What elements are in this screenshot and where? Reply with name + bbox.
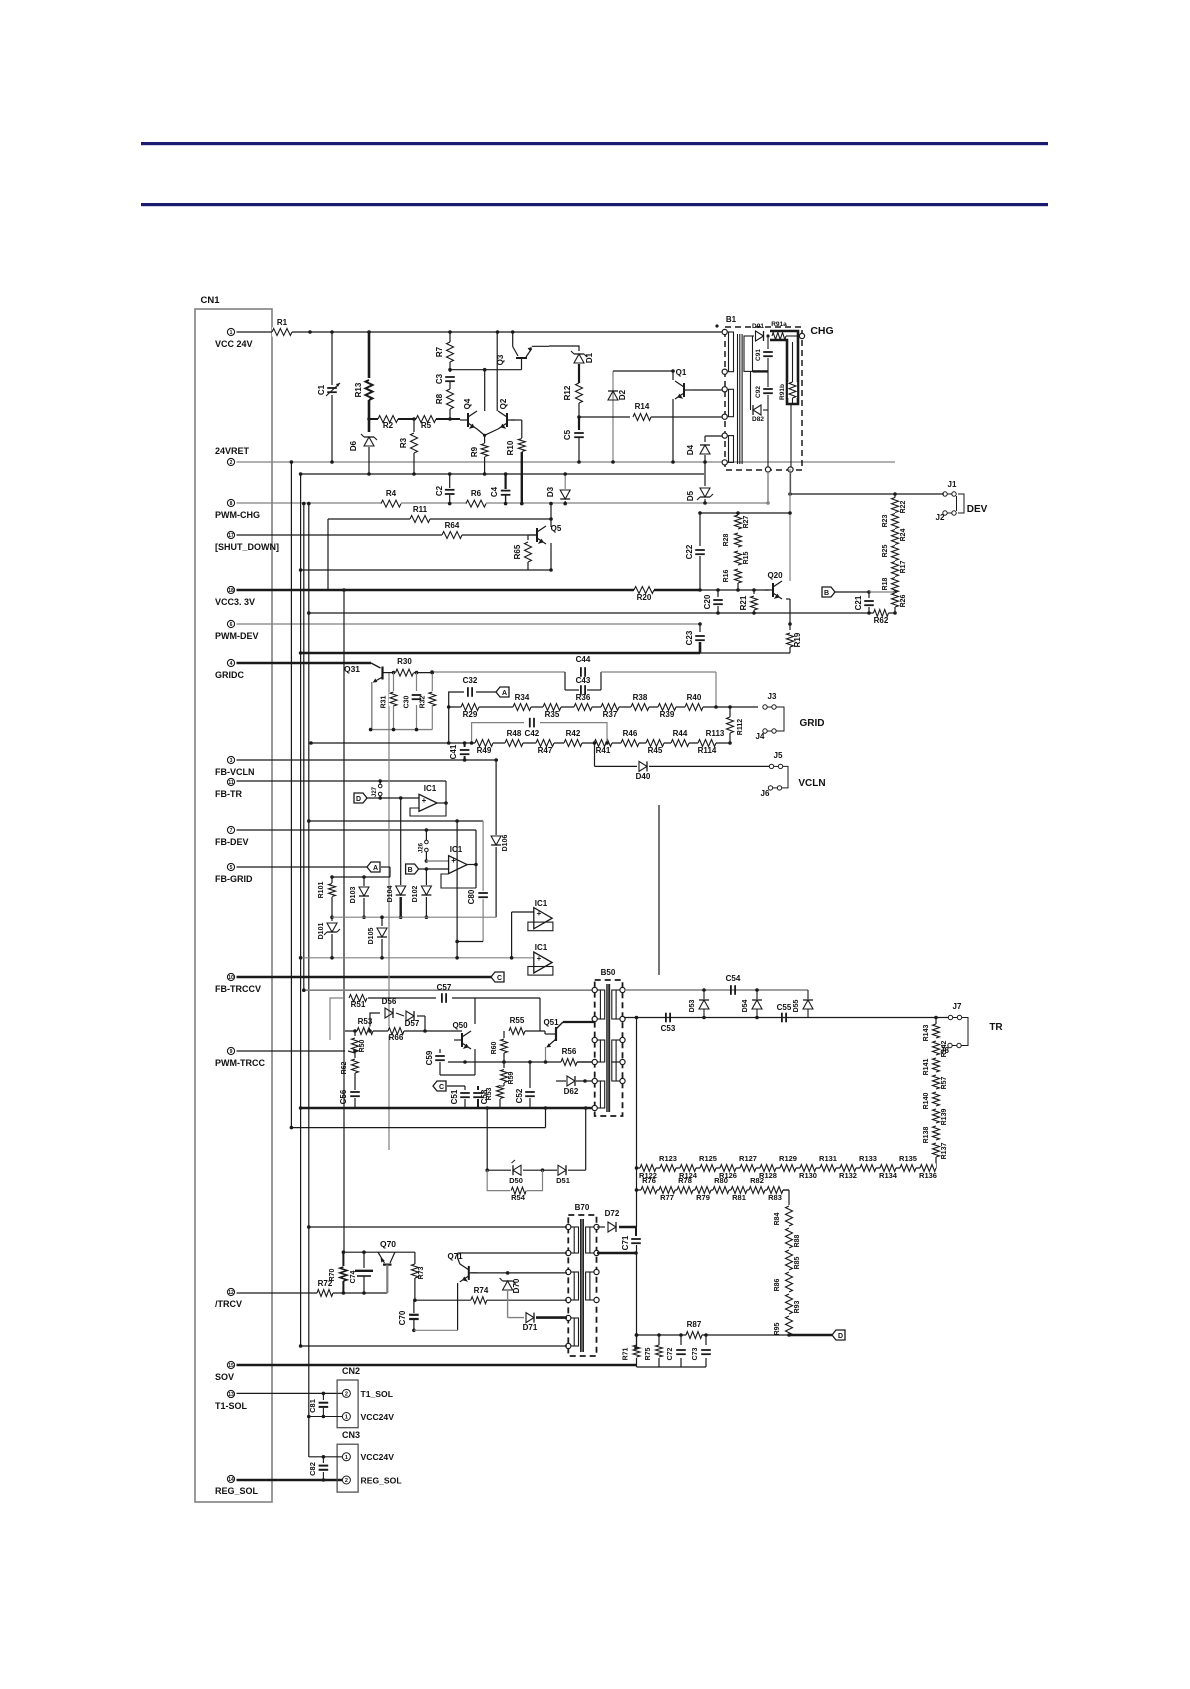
svg-text:D51: D51 xyxy=(556,1176,570,1185)
svg-text:R82: R82 xyxy=(750,1176,764,1185)
svg-text:R75: R75 xyxy=(645,1347,652,1360)
svg-text:Q5: Q5 xyxy=(551,524,562,533)
svg-text:R32: R32 xyxy=(419,695,426,708)
svg-text:D50: D50 xyxy=(509,1176,523,1185)
svg-text:R93: R93 xyxy=(794,1300,801,1313)
svg-text:Q1: Q1 xyxy=(676,368,687,377)
svg-text:R60: R60 xyxy=(491,1041,498,1054)
svg-text:DEV: DEV xyxy=(967,504,988,515)
svg-text:R1: R1 xyxy=(277,318,288,327)
svg-text:R59: R59 xyxy=(508,1071,515,1084)
svg-text:C59: C59 xyxy=(425,1050,434,1065)
svg-text:C92: C92 xyxy=(755,386,762,398)
svg-text:R131: R131 xyxy=(819,1154,837,1163)
svg-text:IC1: IC1 xyxy=(535,943,548,952)
svg-text:R16: R16 xyxy=(723,569,730,582)
svg-text:C42: C42 xyxy=(525,729,540,738)
svg-text:14: 14 xyxy=(228,1477,234,1483)
svg-text:R56: R56 xyxy=(562,1047,577,1056)
svg-text:R133: R133 xyxy=(859,1154,877,1163)
svg-text:J7: J7 xyxy=(953,1002,962,1011)
svg-text:R26: R26 xyxy=(900,594,907,607)
svg-text:D70: D70 xyxy=(512,1278,521,1293)
svg-text:+: + xyxy=(451,856,456,865)
svg-text:R38: R38 xyxy=(633,693,648,702)
svg-text:FB-GRID: FB-GRID xyxy=(215,874,253,884)
svg-text:D5: D5 xyxy=(686,490,695,501)
svg-text:R76: R76 xyxy=(642,1176,656,1185)
svg-text:C72: C72 xyxy=(667,1347,674,1360)
svg-text:R28: R28 xyxy=(723,533,730,546)
svg-text:B: B xyxy=(408,867,413,874)
svg-text:VCC 24V: VCC 24V xyxy=(215,339,253,349)
svg-text:R19: R19 xyxy=(793,632,802,647)
svg-text:R2: R2 xyxy=(383,421,394,430)
svg-text:R130: R130 xyxy=(799,1171,817,1180)
svg-text:C: C xyxy=(497,975,502,982)
svg-text:R129: R129 xyxy=(779,1154,797,1163)
svg-text:IC1: IC1 xyxy=(424,784,437,793)
svg-text:R9: R9 xyxy=(470,446,479,457)
svg-text:FB-TRCCV: FB-TRCCV xyxy=(215,984,261,994)
svg-text:R48: R48 xyxy=(507,729,522,738)
svg-text:C: C xyxy=(439,1084,444,1091)
svg-text:TR: TR xyxy=(989,1022,1003,1033)
svg-text:J6: J6 xyxy=(761,789,770,798)
svg-text:D82: D82 xyxy=(752,416,764,423)
svg-text:D91: D91 xyxy=(752,323,764,330)
svg-text:18: 18 xyxy=(228,588,234,594)
svg-text:D54: D54 xyxy=(742,999,749,1012)
svg-text:R15: R15 xyxy=(743,551,750,564)
svg-text:D62: D62 xyxy=(564,1087,579,1096)
svg-text:R54: R54 xyxy=(511,1193,526,1202)
svg-text:C1: C1 xyxy=(317,384,326,395)
svg-text:R39: R39 xyxy=(660,710,675,719)
svg-text:R53: R53 xyxy=(486,1087,493,1100)
svg-text:D57: D57 xyxy=(405,1019,420,1028)
svg-text:B70: B70 xyxy=(575,1203,590,1212)
svg-text:R77: R77 xyxy=(660,1193,674,1202)
svg-text:9: 9 xyxy=(230,1049,233,1055)
svg-text:C20: C20 xyxy=(703,594,712,609)
svg-text:R87: R87 xyxy=(687,1320,702,1329)
svg-text:R7: R7 xyxy=(435,346,444,357)
svg-text:IC1: IC1 xyxy=(450,845,463,854)
svg-text:D1: D1 xyxy=(585,352,594,363)
svg-text:C91: C91 xyxy=(755,349,762,361)
svg-text:Q20: Q20 xyxy=(767,571,783,580)
svg-text:[SHUT_DOWN]: [SHUT_DOWN] xyxy=(215,542,279,552)
svg-text:FB-TR: FB-TR xyxy=(215,789,242,799)
svg-text:R50: R50 xyxy=(359,1039,366,1052)
svg-text:VCC24V: VCC24V xyxy=(361,1412,395,1422)
svg-text:D: D xyxy=(356,796,361,803)
svg-text:R78: R78 xyxy=(678,1176,692,1185)
svg-text:R135: R135 xyxy=(899,1154,917,1163)
svg-text:J2: J2 xyxy=(936,513,945,522)
svg-text:R6: R6 xyxy=(471,489,482,498)
svg-text:6: 6 xyxy=(230,622,233,628)
svg-text:GRIDC: GRIDC xyxy=(215,670,245,680)
svg-text:C55: C55 xyxy=(777,1003,792,1012)
svg-text:D55: D55 xyxy=(793,999,800,1012)
svg-text:4: 4 xyxy=(230,661,233,667)
svg-text:R17: R17 xyxy=(900,560,907,573)
svg-text:C43: C43 xyxy=(576,676,591,685)
svg-text:+: + xyxy=(422,796,427,805)
svg-text:R83: R83 xyxy=(768,1193,782,1202)
svg-text:D71: D71 xyxy=(523,1323,538,1332)
svg-text:D4: D4 xyxy=(686,444,695,455)
svg-text:GRID: GRID xyxy=(800,718,825,729)
svg-text:R35: R35 xyxy=(545,710,560,719)
svg-text:R79: R79 xyxy=(696,1193,710,1202)
svg-text:2: 2 xyxy=(345,1478,348,1484)
svg-text:D104: D104 xyxy=(387,886,394,903)
svg-text:+: + xyxy=(537,954,542,963)
svg-text:C81: C81 xyxy=(308,1399,317,1413)
svg-text:R85: R85 xyxy=(794,1256,801,1269)
svg-text:R42: R42 xyxy=(566,729,581,738)
svg-text:R114: R114 xyxy=(698,746,717,755)
svg-text:C82: C82 xyxy=(308,1462,317,1476)
svg-text:R14: R14 xyxy=(635,402,650,411)
svg-text:R112: R112 xyxy=(737,719,744,735)
svg-text:R138: R138 xyxy=(923,1127,930,1144)
svg-text:C21: C21 xyxy=(854,595,863,610)
svg-text:D2: D2 xyxy=(618,389,627,400)
svg-text:R91b: R91b xyxy=(779,384,786,400)
svg-text:10: 10 xyxy=(228,975,234,981)
svg-text:R46: R46 xyxy=(623,729,638,738)
svg-text:CHG: CHG xyxy=(810,325,833,337)
svg-text:Q70: Q70 xyxy=(380,1239,396,1249)
svg-text:R24: R24 xyxy=(900,528,907,541)
svg-text:R11: R11 xyxy=(413,505,428,514)
svg-text:T1-SOL: T1-SOL xyxy=(215,1401,248,1411)
svg-text:R41: R41 xyxy=(596,746,611,755)
svg-text:J4: J4 xyxy=(756,732,765,741)
svg-text:C52: C52 xyxy=(515,1088,524,1103)
svg-text:R31: R31 xyxy=(381,695,388,708)
svg-text:R143: R143 xyxy=(923,1025,930,1042)
svg-text:R30: R30 xyxy=(397,657,412,666)
svg-text:C4: C4 xyxy=(490,486,499,497)
svg-text:R134: R134 xyxy=(879,1171,898,1180)
svg-text:VCLN: VCLN xyxy=(798,778,825,789)
svg-text:R123: R123 xyxy=(659,1154,677,1163)
svg-text:R13: R13 xyxy=(354,382,363,397)
svg-text:7: 7 xyxy=(230,828,233,834)
svg-text:D3: D3 xyxy=(546,486,555,497)
svg-text:R18: R18 xyxy=(882,577,889,590)
svg-text:1: 1 xyxy=(345,1415,348,1421)
svg-text:Q2: Q2 xyxy=(499,398,508,409)
svg-text:D56: D56 xyxy=(382,997,397,1006)
svg-text:R139: R139 xyxy=(941,1109,948,1126)
svg-text:R65: R65 xyxy=(513,544,522,559)
svg-text:15: 15 xyxy=(228,1363,234,1369)
svg-text:R53: R53 xyxy=(358,1017,373,1026)
svg-text:C54: C54 xyxy=(726,974,741,983)
svg-text:C5: C5 xyxy=(563,429,572,440)
svg-text:FB-VCLN: FB-VCLN xyxy=(215,767,255,777)
svg-text:R141: R141 xyxy=(923,1059,930,1076)
svg-text:R5: R5 xyxy=(421,421,432,430)
svg-text:R12: R12 xyxy=(563,385,572,400)
svg-text:B1: B1 xyxy=(726,315,737,324)
svg-text:C71: C71 xyxy=(621,1235,630,1250)
svg-text:Q51: Q51 xyxy=(543,1018,559,1027)
svg-text:D53: D53 xyxy=(689,999,696,1012)
svg-text:R81: R81 xyxy=(732,1193,746,1202)
svg-text:D101: D101 xyxy=(318,923,325,940)
svg-text:PWM-CHG: PWM-CHG xyxy=(215,510,260,520)
svg-text:J3: J3 xyxy=(768,692,777,701)
svg-text:12: 12 xyxy=(228,1290,234,1296)
svg-text:R80: R80 xyxy=(714,1176,728,1185)
svg-text:R21: R21 xyxy=(739,595,748,610)
svg-text:17: 17 xyxy=(228,533,234,539)
svg-text:Q50: Q50 xyxy=(452,1021,468,1030)
svg-text:R91a: R91a xyxy=(771,321,787,328)
svg-text:R8: R8 xyxy=(435,393,444,404)
svg-text:24VRET: 24VRET xyxy=(215,446,250,456)
svg-text:D72: D72 xyxy=(605,1209,620,1218)
svg-text:R20: R20 xyxy=(637,593,652,602)
svg-text:R74: R74 xyxy=(474,1286,489,1295)
svg-text:R29: R29 xyxy=(463,710,478,719)
svg-text:D105: D105 xyxy=(368,928,375,945)
svg-text:C22: C22 xyxy=(685,544,694,559)
svg-text:D6: D6 xyxy=(349,440,358,451)
svg-text:B: B xyxy=(824,590,829,597)
svg-text:R86: R86 xyxy=(774,1278,781,1291)
svg-text:VCC3. 3V: VCC3. 3V xyxy=(215,597,255,607)
svg-text:/TRCV: /TRCV xyxy=(215,1299,242,1309)
svg-text:D40: D40 xyxy=(636,772,651,781)
svg-text:R64: R64 xyxy=(445,521,460,530)
svg-text:R45: R45 xyxy=(648,746,663,755)
svg-text:R22: R22 xyxy=(900,500,907,513)
svg-text:C80: C80 xyxy=(467,889,476,904)
svg-text:C53: C53 xyxy=(661,1024,676,1033)
svg-text:13: 13 xyxy=(228,1392,234,1398)
svg-text:J27: J27 xyxy=(372,786,378,797)
svg-text:C3: C3 xyxy=(435,373,444,384)
svg-text:R49: R49 xyxy=(477,746,492,755)
svg-text:R136: R136 xyxy=(919,1171,937,1180)
svg-text:C30: C30 xyxy=(404,695,411,708)
svg-text:J26: J26 xyxy=(418,842,424,853)
svg-text:R95: R95 xyxy=(774,1322,781,1335)
svg-text:R62: R62 xyxy=(874,616,889,625)
svg-text:CN3: CN3 xyxy=(342,1430,360,1440)
svg-text:T1_SOL: T1_SOL xyxy=(361,1389,393,1399)
svg-text:CN2: CN2 xyxy=(342,1366,360,1376)
svg-text:R51: R51 xyxy=(351,1000,366,1009)
svg-text:1: 1 xyxy=(230,330,233,336)
svg-text:5: 5 xyxy=(230,865,233,871)
svg-text:J1: J1 xyxy=(948,480,957,489)
svg-text:R57: R57 xyxy=(941,1076,948,1089)
svg-text:C32: C32 xyxy=(463,676,478,685)
svg-text:R34: R34 xyxy=(515,693,530,702)
svg-text:C57: C57 xyxy=(437,983,452,992)
svg-text:R23: R23 xyxy=(882,514,889,527)
svg-text:R37: R37 xyxy=(603,710,618,719)
svg-text:R132: R132 xyxy=(839,1171,857,1180)
svg-text:Q4: Q4 xyxy=(463,398,472,409)
svg-text:R47: R47 xyxy=(538,746,553,755)
svg-text:R84: R84 xyxy=(774,1212,781,1225)
svg-text:C23: C23 xyxy=(685,630,694,645)
svg-text:R73: R73 xyxy=(418,1266,425,1279)
svg-text:R4: R4 xyxy=(386,489,397,498)
svg-text:PWM-TRCC: PWM-TRCC xyxy=(215,1058,265,1068)
svg-text:C51: C51 xyxy=(450,1089,459,1104)
svg-text:R25: R25 xyxy=(882,544,889,557)
svg-text:C2: C2 xyxy=(435,485,444,496)
svg-text:R127: R127 xyxy=(739,1154,757,1163)
svg-text:8: 8 xyxy=(230,501,233,507)
svg-text:1: 1 xyxy=(345,1455,348,1461)
svg-text:A: A xyxy=(502,690,507,697)
svg-text:SOV: SOV xyxy=(215,1372,234,1382)
svg-text:R44: R44 xyxy=(673,729,688,738)
svg-text:R27: R27 xyxy=(743,515,750,528)
svg-text:R113: R113 xyxy=(706,729,725,738)
svg-text:J5: J5 xyxy=(774,751,783,760)
svg-text:R10: R10 xyxy=(506,440,515,455)
svg-text:Q31: Q31 xyxy=(344,664,360,674)
svg-text:R72: R72 xyxy=(318,1279,333,1288)
svg-text:B50: B50 xyxy=(601,968,616,977)
svg-text:2: 2 xyxy=(345,1391,348,1397)
svg-text:C74: C74 xyxy=(350,1270,357,1283)
svg-text:+: + xyxy=(537,909,542,918)
svg-text:R142: R142 xyxy=(941,1041,948,1058)
svg-text:CN1: CN1 xyxy=(200,295,220,306)
svg-text:D103: D103 xyxy=(350,887,357,904)
svg-text:IC1: IC1 xyxy=(535,899,548,908)
svg-text:R101: R101 xyxy=(318,882,325,899)
svg-text:FB-DEV: FB-DEV xyxy=(215,837,249,847)
svg-text:C41: C41 xyxy=(449,744,458,759)
svg-text:R125: R125 xyxy=(699,1154,717,1163)
svg-text:R36: R36 xyxy=(576,693,591,702)
svg-text:C56: C56 xyxy=(339,1089,348,1104)
svg-text:R137: R137 xyxy=(941,1143,948,1160)
svg-text:R55: R55 xyxy=(510,1016,525,1025)
svg-text:C73: C73 xyxy=(692,1347,699,1360)
svg-text:R88: R88 xyxy=(794,1234,801,1247)
svg-text:R71: R71 xyxy=(623,1347,630,1360)
svg-text:A: A xyxy=(373,865,378,872)
svg-text:D106: D106 xyxy=(502,835,509,852)
svg-text:R66: R66 xyxy=(389,1033,404,1042)
svg-text:R140: R140 xyxy=(923,1093,930,1110)
svg-text:R3: R3 xyxy=(399,437,408,448)
svg-text:D102: D102 xyxy=(412,886,419,903)
svg-text:PWM-DEV: PWM-DEV xyxy=(215,631,259,641)
svg-text:D: D xyxy=(838,1333,843,1340)
svg-text:2: 2 xyxy=(230,460,233,466)
svg-text:R62: R62 xyxy=(341,1061,348,1074)
svg-text:REG_SOL: REG_SOL xyxy=(361,1475,402,1485)
svg-text:C70: C70 xyxy=(398,1310,407,1325)
svg-text:11: 11 xyxy=(228,780,234,786)
svg-text:REG_SOL: REG_SOL xyxy=(215,1486,259,1496)
svg-text:3: 3 xyxy=(230,758,233,764)
svg-text:C44: C44 xyxy=(576,655,591,664)
svg-text:R40: R40 xyxy=(687,693,702,702)
svg-text:VCC24V: VCC24V xyxy=(361,1452,395,1462)
